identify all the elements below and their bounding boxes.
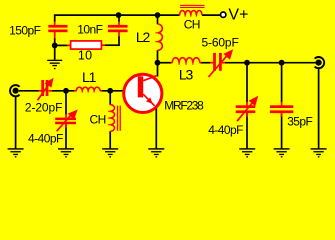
- svg-text:10nF: 10nF: [77, 23, 102, 37]
- svg-text:L2: L2: [136, 29, 151, 45]
- svg-text:L1: L1: [82, 69, 97, 85]
- svg-text:150pF: 150pF: [9, 23, 40, 37]
- svg-text:L3: L3: [179, 66, 194, 82]
- svg-text:CH: CH: [90, 112, 106, 126]
- svg-text:CH: CH: [184, 18, 200, 32]
- svg-text:V+: V+: [228, 6, 248, 23]
- svg-text:10: 10: [78, 48, 93, 62]
- svg-text:4-40pF: 4-40pF: [208, 123, 243, 137]
- svg-text:5-60pF: 5-60pF: [202, 36, 239, 50]
- svg-text:35pF: 35pF: [287, 114, 312, 128]
- svg-text:2-20pF: 2-20pF: [25, 100, 62, 114]
- svg-text:4-40pF: 4-40pF: [28, 132, 63, 146]
- svg-text:MRF238: MRF238: [164, 98, 204, 112]
